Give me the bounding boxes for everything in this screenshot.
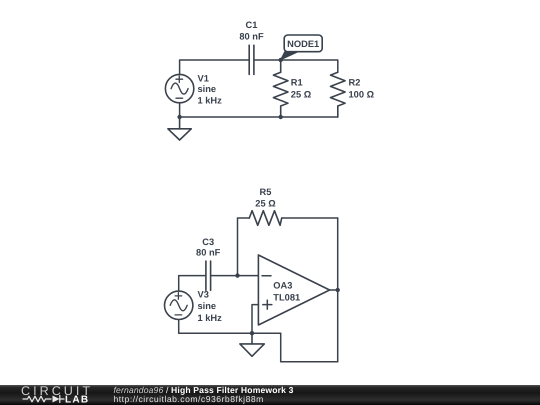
voltage source V1 xyxy=(165,74,193,102)
voltage source V3 xyxy=(165,291,193,319)
svg-text:V3: V3 xyxy=(198,290,209,300)
svg-text:TL081: TL081 xyxy=(273,293,300,303)
junction dot at ground node xyxy=(250,331,254,335)
wire C3 to inverting input node xyxy=(211,275,238,277)
svg-text:25 Ω: 25 Ω xyxy=(255,199,276,209)
wire V3 top to C3 xyxy=(179,276,206,291)
wire output right vertical rail xyxy=(337,218,339,362)
wire V3 bottom stub xyxy=(179,320,281,333)
svg-text:OA3: OA3 xyxy=(273,280,292,290)
wire bottom step to output rail xyxy=(281,333,338,362)
svg-text:C3: C3 xyxy=(202,237,214,247)
resistor R1 xyxy=(273,60,288,117)
svg-text:http://circuitlab.com/c936rb8f: http://circuitlab.com/c936rb8fkj88m xyxy=(114,394,264,404)
svg-text:R1: R1 xyxy=(291,77,303,87)
junction dot at output xyxy=(336,288,340,292)
svg-text:V1: V1 xyxy=(198,73,209,83)
wire op-amp output stub xyxy=(330,289,338,291)
junction dot at R1 bottom xyxy=(279,115,283,119)
junction dot at NODE1 xyxy=(279,58,283,62)
wire from C1 right plate to node NODE1 xyxy=(254,59,281,61)
footer black bar xyxy=(0,385,540,405)
CircuitLab logo resistor-diode glyph xyxy=(23,396,64,403)
svg-text:C1: C1 xyxy=(246,20,258,30)
capacitor C1 xyxy=(249,45,254,74)
capacitor C3 xyxy=(206,261,211,290)
wire feedback left vertical to inverting node xyxy=(238,218,250,276)
op-amp OA3 xyxy=(258,255,329,325)
ground symbol bottom circuit xyxy=(240,333,264,356)
svg-text:R2: R2 xyxy=(349,77,361,87)
svg-text:sine: sine xyxy=(198,84,217,94)
svg-text:80 nF: 80 nF xyxy=(196,247,221,257)
resistor R2 xyxy=(331,72,346,117)
svg-text:sine: sine xyxy=(198,301,217,311)
wire top rail from V1 to C1 left plate xyxy=(180,60,250,74)
wire inverting input stub xyxy=(238,275,259,277)
svg-text:80 nF: 80 nF xyxy=(239,31,264,41)
svg-text:25 Ω: 25 Ω xyxy=(291,90,312,100)
junction dot at inverting input xyxy=(235,273,239,277)
wire from NODE1 to R2 top xyxy=(281,60,338,72)
svg-text:1 kHz: 1 kHz xyxy=(198,313,223,323)
ground symbol top circuit xyxy=(168,117,191,140)
svg-text:R5: R5 xyxy=(260,187,272,197)
wire R5 right to output rail xyxy=(282,217,338,219)
svg-text:NODE1: NODE1 xyxy=(287,39,319,49)
wire non-inverting input to ground rail xyxy=(252,305,258,334)
svg-text:100 Ω: 100 Ω xyxy=(349,90,375,100)
resistor R5 xyxy=(249,211,281,226)
svg-text:1 kHz: 1 kHz xyxy=(198,95,223,105)
wire bottom rail of top circuit xyxy=(180,116,338,118)
svg-text:LAB: LAB xyxy=(65,395,89,405)
node NODE1 flag callout xyxy=(281,35,323,60)
junction dot at V1 bottom xyxy=(177,115,181,119)
wire V1 bottom stub xyxy=(179,103,181,117)
